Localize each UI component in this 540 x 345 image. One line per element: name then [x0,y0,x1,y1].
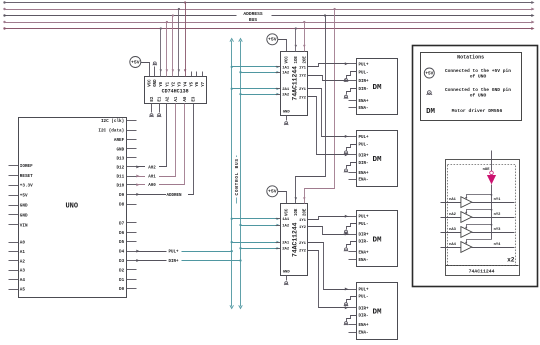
svg-text:A3: A3 [20,269,26,274]
pins U1 right side [127,120,137,122]
wire net PUL+ from U1 D4 [137,251,167,253]
svg-text:GND: GND [154,79,158,87]
svg-text:1Y1: 1Y1 [299,66,307,70]
svg-text:nOE: nOE [483,168,491,172]
svg-text:DM: DM [426,108,435,116]
pin stubs U2 Y5 Y6 Y7 unconnected [191,72,193,77]
svg-text:D12: D12 [116,165,124,170]
svg-text:PUL+: PUL+ [359,289,370,293]
wire net A02 U1 to U2 [137,109,167,167]
power +5V supply for U4 [267,186,278,197]
svg-text:D6: D6 [119,231,125,236]
svg-text:D0: D0 [119,287,125,292]
svg-text:DM: DM [372,84,382,92]
svg-text:UNO: UNO [65,202,78,210]
svg-text:nA3: nA3 [449,228,457,232]
wire U2 Y3 to address bus [178,10,180,77]
module DM1 motor driver body [357,59,398,115]
svg-text:PUL+: PUL+ [168,251,179,255]
svg-text:Y6: Y6 [196,81,200,86]
svg-text:VIN: VIN [20,223,28,228]
svg-text:+5V: +5V [425,71,433,76]
node junction Y4 on bus [184,1,186,3]
svg-text:DIR-: DIR- [359,315,369,319]
svg-text:A4: A4 [20,278,26,283]
svg-text:Motor driver DM556: Motor driver DM556 [452,108,503,114]
svg-text:DIR-: DIR- [359,88,369,92]
svg-text:D1: D1 [119,278,125,283]
svg-text:+5V: +5V [131,59,140,65]
svg-text:Y1: Y1 [166,81,170,86]
wire VCC of U4 to +5V [278,192,287,204]
svg-text:2Y1: 2Y1 [299,242,307,246]
inverter bubble on nOE [490,171,494,175]
symbol GND in notations [427,91,431,95]
svg-text:x2: x2 [507,257,515,264]
wire address bus line A0 [5,28,534,30]
svg-text:RESET: RESET [20,174,33,179]
svg-text:PUL+: PUL+ [359,63,370,67]
wire control bus PUL+ vertical [231,41,233,307]
svg-text:A2: A2 [20,259,26,264]
wire control bus DIR+ vertical [240,41,242,307]
svg-text:E1: E1 [159,96,163,101]
node junction Y0 on bus [160,27,162,29]
svg-text:A0: A0 [184,96,188,101]
svg-text:D7: D7 [119,221,125,226]
svg-text:DIR+: DIR+ [359,307,370,311]
wire U2 Y0 to address bus [160,29,162,77]
wire enable branch to gate n2 [467,210,492,214]
buffer gate n1 triangle [461,197,472,208]
svg-text:1Y1: 1Y1 [299,219,307,223]
IC U3 74AC11244 body [281,52,308,116]
svg-text:Connected to the +5V pin: Connected to the +5V pin [445,68,511,74]
svg-text:ENA+: ENA+ [359,172,370,176]
wire U3 2Y2 to DM2 DIR+ [308,97,349,155]
svg-text:ADDRESS: ADDRESS [243,11,263,17]
svg-text:A00: A00 [148,184,156,188]
svg-text:D4: D4 [119,250,125,255]
buffer gate n3 triangle [461,227,472,238]
pin stubs DM2 PUL+ DIR+ ENA+ ENA- [349,136,357,138]
wire nOE distribution column [491,185,493,240]
module DM3 motor driver body [357,211,398,267]
svg-text:GND: GND [20,213,28,218]
svg-text:1Y2: 1Y2 [299,226,307,230]
svg-text:A5: A5 [20,288,26,293]
wires control bus to U3 inputs [232,66,276,68]
svg-text:DIR+: DIR+ [168,260,179,264]
svg-text:VCC: VCC [286,56,290,64]
svg-text:nA2: nA2 [449,213,457,217]
svg-text:nY3: nY3 [494,228,502,232]
svg-text:ENA+: ENA+ [359,324,370,328]
wire enable branch to gate n3 [467,225,492,229]
svg-text:GND: GND [116,147,124,152]
ground DM2 PUL- (GND-of-UNO symbol) [347,145,357,151]
svg-text:PUL-: PUL- [359,144,369,148]
ground DM1 PUL- (GND-of-UNO symbol) [347,72,357,79]
svg-text:VCC: VCC [286,208,290,216]
svg-text:1A1: 1A1 [282,66,290,70]
svg-text:1A2: 1A2 [282,72,290,76]
wire U2 Y4 to address bus [185,3,187,77]
svg-text:2OE: 2OE [304,208,308,216]
svg-text:1Y2: 1Y2 [299,75,307,79]
svg-text:PUL-: PUL- [359,223,369,227]
svg-text:2Y1: 2Y1 [299,88,307,92]
svg-text:Notations: Notations [457,55,484,61]
svg-text:D3: D3 [119,259,125,264]
svg-text:I2C (data): I2C (data) [98,129,124,134]
svg-text:nY1: nY1 [494,198,502,202]
symbol +5V in notations [424,68,434,78]
svg-text:DIR+: DIR+ [359,234,370,238]
wire VCC of U3 to +5V [278,40,287,52]
svg-text:D5: D5 [119,240,125,245]
wire U4 2Y1 to DM4 PUL+ [308,243,349,290]
ground DM4 PUL- (GND-of-UNO symbol) [347,297,357,303]
svg-text:Y3: Y3 [178,81,182,86]
svg-text:74AC11244: 74AC11244 [291,66,298,101]
inverter triangle nOE (magenta) [487,175,496,184]
svg-text:GND: GND [283,111,291,115]
svg-text:DM: DM [372,236,382,244]
node junction Y2 on bus [172,14,174,16]
svg-text:PUL-: PUL- [359,296,369,300]
svg-text:GND: GND [283,271,291,275]
svg-text:+5V: +5V [268,189,277,195]
svg-text:ENA+: ENA+ [359,100,370,104]
svg-text:A0: A0 [20,241,26,246]
wire nOE input [491,151,493,172]
wires control bus to U4 inputs [232,218,276,220]
ground GND pin of U4 [286,276,288,281]
svg-text:2A1: 2A1 [282,242,290,246]
svg-text:+5V: +5V [20,194,28,199]
svg-text:BUS: BUS [249,17,258,23]
svg-text:Connected to the GND pin: Connected to the GND pin [445,87,511,93]
ground DM3 DIR- (GND-of-UNO symbol) [347,242,357,248]
ground E1 pin of U2 [159,104,161,113]
wire U4 1OE to address bus [296,16,326,204]
power +5V supply for U2 [130,57,141,68]
svg-text:1A1: 1A1 [282,218,290,222]
svg-text:D11: D11 [116,175,124,180]
svg-text:PUL+: PUL+ [359,136,370,140]
svg-text:+5V: +5V [268,37,277,43]
svg-text:D8: D8 [119,203,125,208]
svg-text:E3: E3 [193,96,197,101]
power +5V supply for U3 [267,34,278,45]
buffer gate n2 triangle [461,212,472,223]
svg-text:DIR+: DIR+ [359,154,370,158]
wire input nA4 [441,247,461,249]
svg-text:IOREF: IOREF [20,164,33,169]
wire U2 Y1 to address bus [166,23,168,77]
svg-text:nY2: nY2 [494,213,502,217]
wire U3 2Y1 to DM2 PUL+ [308,89,349,137]
svg-text:2A2: 2A2 [282,248,290,252]
ground DM1 DIR- (GND-of-UNO symbol) [347,89,357,95]
svg-text:ADDREN: ADDREN [166,194,182,198]
svg-text:D13: D13 [116,156,124,161]
wire VCC of U2 to +5V [141,63,150,77]
wire output nY2 [472,217,515,219]
svg-text:2A1: 2A1 [282,88,290,92]
module DM2 motor driver body [357,131,398,187]
node junction Y1 on bus [166,21,168,23]
pin stubs DM3 PUL+ DIR+ ENA+ ENA- [349,216,357,218]
svg-text:D9: D9 [119,193,125,198]
pins U1 left side [9,165,19,167]
svg-text:of UNO: of UNO [470,74,487,80]
svg-text:2Y2: 2Y2 [299,96,307,100]
svg-text:DIR+: DIR+ [359,80,370,84]
svg-text:ENA+: ENA+ [359,251,370,255]
svg-text:A1: A1 [175,96,179,101]
wire U3 1Y2 to DM1 DIR+ [308,76,349,81]
wire enable branch to gate n1 [467,195,492,199]
buffer gate n4 triangle [461,242,472,253]
svg-text:Y2: Y2 [172,81,176,86]
wire input nA2 [441,217,461,219]
wire address bus line A2 [5,15,237,17]
svg-text:CONTROL BUS: CONTROL BUS [235,158,240,195]
pin stubs DM1 PUL+ DIR+ ENA+ ENA- [349,63,357,65]
svg-text:PUL-: PUL- [359,71,369,75]
node junction Y3 on bus [178,8,180,10]
wire output nY1 [472,202,515,204]
svg-text:CD74HC138: CD74HC138 [162,88,189,94]
wire address bus line A4 [5,2,534,4]
wire net ADDREN U1 to U2 [137,109,194,195]
IC U4 74AC11244 body [281,204,308,276]
panel legend outer frame [413,46,538,287]
svg-text:2A2: 2A2 [282,94,290,98]
ground GND pin of U2 (GND-of-UNO symbol) [154,67,156,77]
svg-text:of UNO: of UNO [470,93,487,99]
svg-text:GND: GND [20,204,28,209]
dashed boundary of 74AC11244 internals [448,165,516,266]
IC U2 CD74HC138 decoder body [145,77,207,104]
svg-text:2Y2: 2Y2 [299,249,307,253]
svg-text:+3.3V: +3.3V [20,184,33,189]
svg-text:nY4: nY4 [494,243,502,247]
wire U2 Y2 to address bus [172,16,174,77]
ground DM3 PUL- (GND-of-UNO symbol) [347,224,357,230]
svg-text:ENA-: ENA- [359,332,369,336]
svg-text:ENA-: ENA- [359,107,369,111]
wire input nA3 [441,232,461,234]
svg-text:74AC11244: 74AC11244 [469,269,495,275]
svg-text:ENA-: ENA- [359,259,369,263]
ground DM4 DIR- (GND-of-UNO symbol) [347,316,357,322]
wire enable branch to gate n4 [467,240,492,244]
wire U3 1Y1 to DM1 PUL+ [308,64,349,67]
wire U4 2OE to address bus [305,10,335,204]
svg-text:DIR-: DIR- [359,241,369,245]
wire net DIR+ from U1 D3 [137,260,167,262]
module DM4 motor driver body [357,283,398,340]
svg-text:nA4: nA4 [449,243,457,247]
svg-text:D10: D10 [116,183,124,188]
wire output nY3 [472,232,515,234]
wire U4 1Y1 to DM3 PUL+ [308,217,349,220]
IC detail 74AC11244 inner box [446,160,520,276]
pin stubs DM4 PUL+ DIR+ ENA+ ENA- [349,289,357,291]
svg-text:nA1: nA1 [449,198,457,202]
svg-text:Y0: Y0 [160,81,164,86]
svg-text:A01: A01 [148,175,156,179]
wire net A00 U1 to U2 [137,109,185,185]
svg-text:1OE: 1OE [295,208,299,216]
wire output nY4 [472,247,515,249]
svg-text:Y7: Y7 [202,81,206,86]
wire address bus line A3 [5,9,534,11]
svg-text:1OE: 1OE [295,56,299,64]
svg-text:A02: A02 [148,166,156,170]
ground DM2 DIR- (GND-of-UNO symbol) [347,163,357,169]
svg-text:PUL+: PUL+ [359,216,370,220]
svg-text:A2: A2 [166,96,170,101]
wire net A01 U1 to U2 [137,109,176,177]
wire U3 2OE to address bus [304,23,306,52]
node CONTROL BUS label [236,156,238,162]
module U1 Arduino UNO body [19,118,127,298]
svg-text:2OE: 2OE [304,56,308,64]
ground GND pin of U3 [286,116,288,121]
svg-text:74AC11244: 74AC11244 [291,222,298,257]
svg-text:VCC: VCC [149,79,153,87]
svg-text:I2C (clk): I2C (clk) [101,119,124,124]
wire U4 1Y2 to DM3 DIR+ [308,227,349,235]
wire U3 1OE to address bus [295,29,297,52]
svg-text:Y4: Y4 [185,81,189,86]
svg-text:DM: DM [372,156,382,164]
ground E2 pin of U2 [151,104,153,113]
svg-text:D2: D2 [119,268,125,273]
svg-text:E2: E2 [151,96,155,101]
svg-text:DM: DM [372,309,382,317]
wire U4 2Y2 to DM4 DIR+ [308,251,349,308]
svg-text:ENA-: ENA- [359,179,369,183]
svg-text:1A2: 1A2 [282,224,290,228]
svg-text:Y5: Y5 [191,81,195,86]
panel Notations box [421,53,522,121]
svg-text:AREF: AREF [114,138,125,143]
svg-text:DIR-: DIR- [359,162,369,166]
svg-text:A1: A1 [20,250,26,255]
wire input nA1 [441,202,461,204]
wire address bus line A1 [5,22,534,24]
